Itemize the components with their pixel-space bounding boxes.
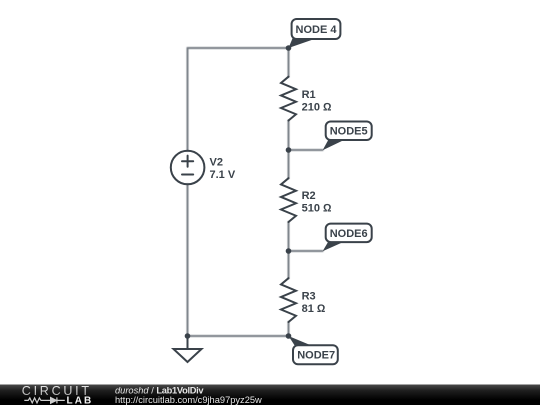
wire node6 to R3 lead (288, 251, 290, 278)
svg-text:R2: R2 (302, 190, 316, 202)
node B label NODE5 box (326, 122, 372, 141)
wire R1 to node5 lead (288, 121, 290, 151)
svg-text:R1: R1 (302, 89, 316, 101)
wire node4 to R1 lead (288, 48, 290, 77)
wire top horizontal (188, 47, 289, 49)
svg-text:NODE6: NODE6 (330, 228, 368, 240)
junction dot node4 (286, 45, 292, 51)
junction dot ground (185, 333, 191, 339)
V2 minus sign (182, 174, 193, 176)
CircuitLab logo resistor-diode glyph (24, 397, 65, 403)
resistor R2 zigzag (281, 178, 296, 222)
voltage source V2 circle (171, 151, 205, 185)
footer black bar (0, 385, 540, 405)
wire node5 label stub (289, 149, 323, 151)
svg-text:7.1 V: 7.1 V (210, 169, 236, 181)
svg-text:R3: R3 (302, 290, 316, 302)
NODE7 label tail (289, 336, 313, 346)
wire left lower (187, 184, 189, 336)
node D label NODE7 box (293, 345, 338, 364)
junction dot node7 (286, 333, 292, 339)
svg-text:LAB: LAB (67, 396, 94, 405)
resistor R1 zigzag (281, 77, 296, 121)
svg-text:V2: V2 (210, 157, 223, 169)
node A label NODE 4 box (292, 19, 341, 39)
svg-text:NODE5: NODE5 (330, 126, 368, 138)
wire left upper (187, 48, 189, 151)
svg-text:http://circuitlab.com/c9jha97p: http://circuitlab.com/c9jha97pyz25w (115, 395, 262, 405)
node C label NODE6 box (326, 224, 372, 243)
NODE6 label tail (323, 241, 345, 251)
NODE5 label tail (323, 140, 345, 151)
wire bottom horizontal (188, 335, 289, 337)
ground triangle (174, 349, 202, 362)
V2 plus sign (182, 156, 193, 167)
svg-text:NODE7: NODE7 (297, 350, 335, 362)
svg-text:510 Ω: 510 Ω (302, 203, 332, 215)
wire node5 to R2 lead (288, 150, 290, 178)
junction dot node5 (286, 147, 292, 153)
junction dot node6 (286, 248, 292, 254)
wire R2 to node6 lead (288, 222, 290, 251)
wire R3 to node7 lead (288, 322, 290, 336)
ground stem (187, 336, 189, 349)
svg-text:NODE 4: NODE 4 (296, 24, 338, 36)
wire node6 label stub (289, 250, 323, 252)
svg-text:210 Ω: 210 Ω (302, 102, 332, 114)
resistor R3 zigzag (281, 278, 296, 322)
svg-text:81 Ω: 81 Ω (302, 303, 326, 315)
NODE 4 label tail (289, 36, 314, 48)
